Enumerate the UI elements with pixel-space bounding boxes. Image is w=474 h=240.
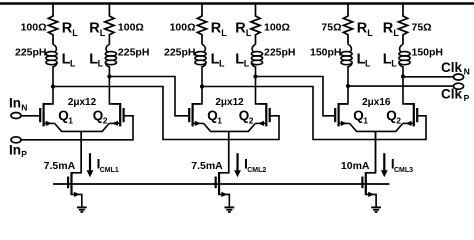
svg-text:Q: Q	[93, 108, 104, 123]
resistor R_L stage1 left 100Ω	[48, 4, 57, 45]
wire In_N to Q1 gate stage1	[21, 115, 40, 117]
label L_L stage1 left	[62, 51, 76, 68]
svg-text:Q: Q	[386, 108, 397, 123]
wire VDD rail	[0, 2, 474, 5]
ground stage1	[77, 207, 87, 212]
wire tail node stage3	[350, 123, 403, 172]
label Q1 stage3	[353, 108, 368, 125]
svg-text:L: L	[70, 59, 76, 69]
label R_L stage1 left	[62, 20, 79, 38]
svg-text:CML3: CML3	[394, 167, 413, 174]
svg-text:Q: Q	[239, 108, 250, 123]
wire stage3 drainN to ClkP	[348, 85, 454, 87]
node drain N stage1	[51, 84, 55, 88]
svg-text:2: 2	[103, 115, 108, 125]
wire stage1 drainN to stage2 Q2 gate	[53, 87, 279, 140]
label 75Ω stage3 left	[321, 21, 341, 33]
label R_L stage2 right	[235, 20, 252, 38]
label 150pH stage3 left	[310, 46, 342, 58]
wire drain Q2 stage1	[109, 77, 120, 104]
svg-text:L: L	[365, 59, 371, 69]
label Q1 stage2	[207, 108, 222, 125]
label 225pH stage1 left	[15, 46, 47, 58]
svg-text:In: In	[9, 142, 21, 157]
svg-text:R: R	[211, 20, 222, 36]
wire left branch stage2	[201, 68, 203, 87]
label In_N	[9, 96, 27, 113]
label 225pH stage1 right	[118, 46, 150, 58]
label 7.5mA stage2	[191, 160, 223, 172]
label 100Ω stage1 right	[118, 21, 144, 33]
resistor R_L stage1 right 100Ω	[105, 4, 114, 45]
wire drain Q1 stage2	[193, 87, 202, 104]
wire right branch stage2	[255, 68, 257, 77]
wire tail node stage2	[204, 123, 256, 172]
svg-text:L: L	[367, 28, 373, 38]
transistor Q1 stage1	[40, 103, 54, 126]
wire drain Q2 stage3	[403, 77, 414, 104]
transistor Q2 stage2	[255, 103, 269, 126]
transistor Q1 stage3	[335, 103, 349, 126]
svg-text:L: L	[244, 59, 250, 69]
label 100Ω stage2 right	[264, 21, 290, 33]
inductor L_L stage1 left 225pH	[46, 45, 57, 69]
label Clk_N	[441, 60, 470, 77]
svg-text:Clk: Clk	[441, 60, 463, 75]
svg-text:L: L	[98, 59, 104, 69]
svg-text:2: 2	[396, 115, 401, 125]
current arrow I_CML3	[381, 153, 388, 177]
svg-text:N: N	[21, 102, 27, 112]
wire stage2 drainP to stage3 Q1 gate	[256, 77, 336, 116]
svg-text:1: 1	[68, 115, 73, 125]
label R_L stage3 left	[357, 20, 374, 38]
svg-text:2μx12: 2μx12	[68, 97, 97, 108]
label 225pH stage2 right	[264, 46, 296, 58]
port Clk_N	[454, 74, 464, 80]
node drain P stage1	[107, 74, 111, 78]
svg-text:L: L	[246, 28, 252, 38]
resistor R_L stage2 right 100Ω	[251, 4, 260, 45]
svg-text:P: P	[464, 93, 470, 103]
ground stage3	[371, 207, 381, 212]
svg-text:L: L	[219, 59, 225, 69]
label L_L stage3 right	[383, 51, 397, 68]
wire drain Q2 stage2	[256, 77, 267, 104]
wire right branch stage3	[402, 68, 404, 77]
svg-text:CML1: CML1	[100, 167, 119, 174]
transistor Q2 stage1	[109, 103, 123, 126]
svg-text:R: R	[89, 20, 100, 36]
transistor M2 tail current source	[216, 131, 230, 207]
port In_P	[11, 137, 21, 143]
node drain N stage3	[346, 84, 350, 88]
svg-text:N: N	[464, 67, 470, 77]
svg-text:75Ω: 75Ω	[412, 21, 432, 33]
svg-text:1: 1	[217, 115, 222, 125]
svg-text:10mA: 10mA	[341, 160, 370, 172]
port In_N	[11, 113, 21, 119]
wire drain Q1 stage3	[339, 86, 348, 104]
wire left branch stage3	[347, 68, 349, 86]
svg-text:P: P	[21, 149, 27, 159]
wire gate bias line	[53, 183, 390, 185]
svg-text:L: L	[391, 59, 397, 69]
wire left branch stage1	[52, 68, 54, 87]
node drain P stage2	[253, 74, 257, 78]
svg-text:100Ω: 100Ω	[118, 21, 144, 33]
label R_L stage3 right	[383, 20, 400, 38]
label Q2 stage3	[386, 108, 401, 125]
label 75Ω stage3 right	[412, 21, 432, 33]
label size 2μx16 stage3	[362, 97, 391, 108]
resistor R_L stage3 left 75Ω	[343, 4, 352, 45]
wire In_P to Q2 gate stage1	[21, 116, 133, 140]
label 150pH stage3 right	[412, 46, 444, 58]
label size 2μx12 stage1	[68, 97, 97, 108]
svg-text:2μx16: 2μx16	[362, 97, 391, 108]
transistor Q2 stage3	[403, 103, 417, 126]
svg-text:150pH: 150pH	[310, 46, 342, 58]
label R_L stage2 left	[211, 20, 228, 38]
svg-text:CML2: CML2	[247, 167, 266, 174]
svg-text:225pH: 225pH	[264, 46, 296, 58]
label 100Ω stage2 left	[170, 21, 196, 33]
ground stage2	[224, 207, 234, 212]
svg-text:100Ω: 100Ω	[264, 21, 290, 33]
inductor L_L stage2 right 225pH	[251, 45, 262, 69]
svg-text:Q: Q	[353, 108, 364, 123]
transistor M3 tail current source	[362, 131, 376, 207]
inductor L_L stage2 left 225pH	[195, 45, 206, 69]
label L_L stage2 left	[211, 51, 225, 68]
node drain P stage3	[401, 74, 405, 78]
svg-text:L: L	[72, 28, 78, 38]
inductor L_L stage1 right 225pH	[105, 45, 116, 69]
svg-text:75Ω: 75Ω	[321, 21, 341, 33]
svg-text:R: R	[62, 20, 73, 36]
svg-text:225pH: 225pH	[118, 46, 150, 58]
current arrow I_CML1	[87, 153, 94, 177]
wire stage2 drainN to stage3 Q2 gate	[202, 87, 426, 140]
node drain N stage2	[200, 84, 204, 88]
svg-text:Clk: Clk	[441, 86, 463, 101]
svg-text:225pH: 225pH	[164, 46, 196, 58]
label 10mA stage3	[341, 160, 370, 172]
svg-text:100Ω: 100Ω	[170, 21, 196, 33]
svg-text:100Ω: 100Ω	[21, 21, 47, 33]
label L_L stage2 right	[235, 51, 249, 68]
label 7.5mA stage1	[44, 160, 76, 172]
resistor R_L stage3 right 75Ω	[398, 4, 407, 45]
label Clk_P	[441, 86, 470, 103]
label L_L stage1 right	[89, 51, 103, 68]
svg-text:2: 2	[249, 115, 254, 125]
label I_CML3	[391, 156, 413, 174]
resistor R_L stage2 left 100Ω	[197, 4, 206, 45]
svg-text:150pH: 150pH	[412, 46, 444, 58]
label I_CML2	[244, 156, 266, 174]
svg-text:Q: Q	[207, 108, 218, 123]
label R_L stage1 right	[89, 20, 106, 38]
svg-text:225pH: 225pH	[15, 46, 47, 58]
wire tail node stage1	[55, 123, 110, 172]
inductor L_L stage3 left 150pH	[341, 45, 352, 69]
label Q2 stage1	[93, 108, 108, 125]
label size 2μx12 stage2	[215, 97, 244, 108]
wire stage1 drainP to stage2 Q1 gate	[109, 77, 189, 116]
svg-text:In: In	[9, 96, 21, 111]
transistor Q1 stage2	[189, 103, 203, 126]
port Clk_P	[454, 83, 464, 89]
label I_CML1	[97, 156, 119, 174]
svg-text:L: L	[393, 28, 399, 38]
wire right branch stage1	[108, 68, 110, 77]
label Q1 stage1	[58, 108, 73, 125]
svg-text:7.5mA: 7.5mA	[44, 160, 76, 172]
wire stage3 drainP to ClkN	[403, 76, 454, 78]
label Q2 stage2	[239, 108, 254, 125]
current arrow I_CML2	[234, 153, 241, 177]
svg-text:L: L	[221, 28, 227, 38]
svg-text:Q: Q	[58, 108, 69, 123]
label 225pH stage2 left	[164, 46, 196, 58]
svg-text:7.5mA: 7.5mA	[191, 160, 223, 172]
wire drain Q1 stage1	[44, 87, 53, 104]
svg-text:L: L	[100, 28, 106, 38]
svg-text:R: R	[235, 20, 246, 36]
svg-text:1: 1	[363, 115, 368, 125]
label 100Ω stage1 left	[21, 21, 47, 33]
svg-text:R: R	[357, 20, 368, 36]
label In_P	[9, 142, 27, 159]
svg-text:2μx12: 2μx12	[215, 97, 244, 108]
transistor M1 tail current source	[68, 131, 82, 207]
label L_L stage3 left	[357, 51, 371, 68]
inductor L_L stage3 right 150pH	[399, 45, 410, 69]
svg-text:R: R	[383, 20, 394, 36]
